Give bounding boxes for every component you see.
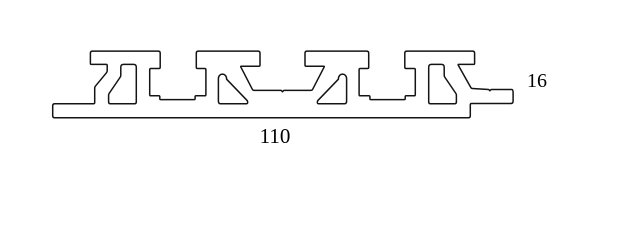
dimension label 16 [522,70,552,93]
T-slot cavity hole 4 [429,64,457,103]
profile outer outline [53,51,513,118]
T-slot cavity hole 2 [218,74,247,104]
T-slot cavity hole 1 [109,64,137,103]
T-slot cavity hole 3 [317,74,346,104]
dimension label 110 [254,124,296,149]
